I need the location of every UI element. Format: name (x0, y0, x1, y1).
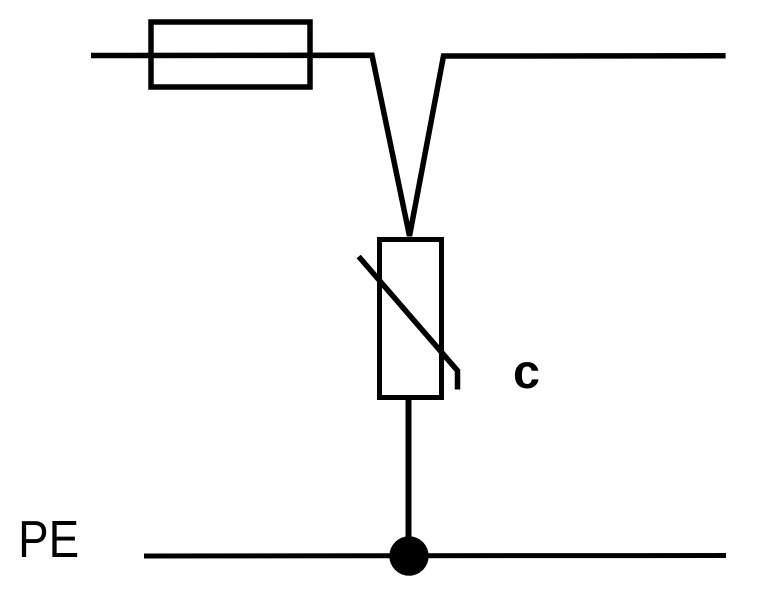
svg-text:c: c (513, 345, 540, 399)
svg-text:PE: PE (18, 511, 79, 568)
